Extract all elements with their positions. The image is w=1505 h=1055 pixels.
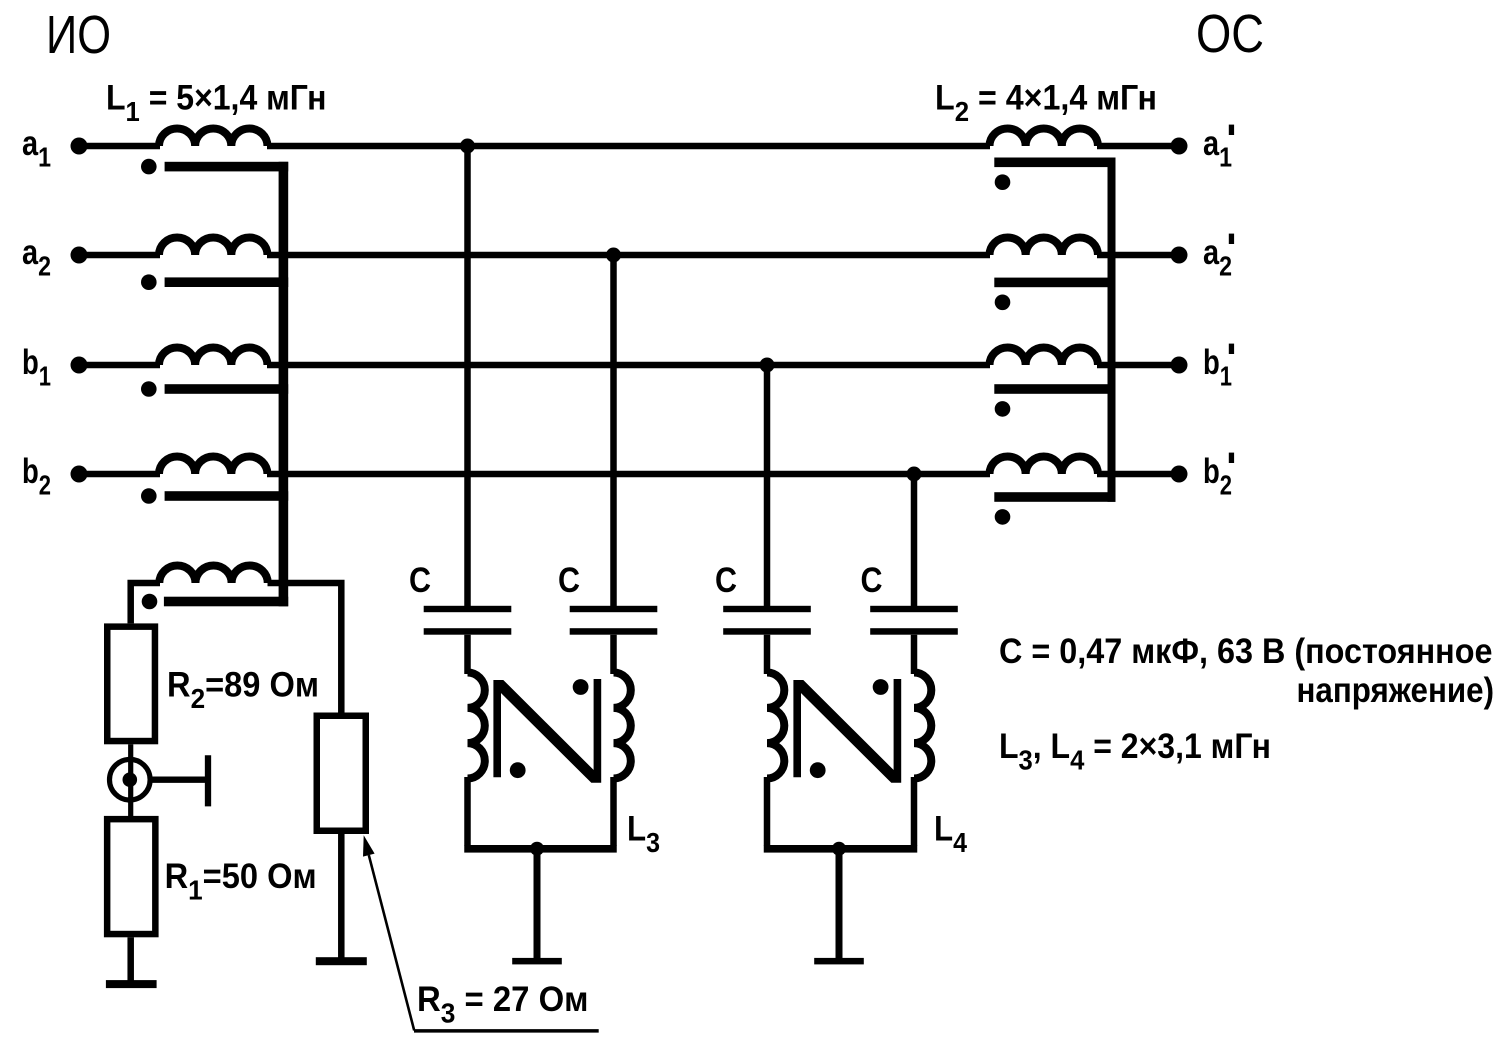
svg-text:C = 0,47 мкФ, 63 В (постоянно: C = 0,47 мкФ, 63 В (постоянное — [999, 632, 1493, 671]
svg-text:ИО: ИО — [46, 5, 111, 65]
svg-text:C: C — [558, 561, 580, 600]
svg-text:C: C — [409, 561, 431, 600]
svg-text:C: C — [861, 561, 883, 600]
svg-text:ОС: ОС — [1196, 4, 1264, 64]
svg-text:C: C — [715, 561, 737, 600]
svg-text:напряжение): напряжение) — [1297, 671, 1495, 710]
